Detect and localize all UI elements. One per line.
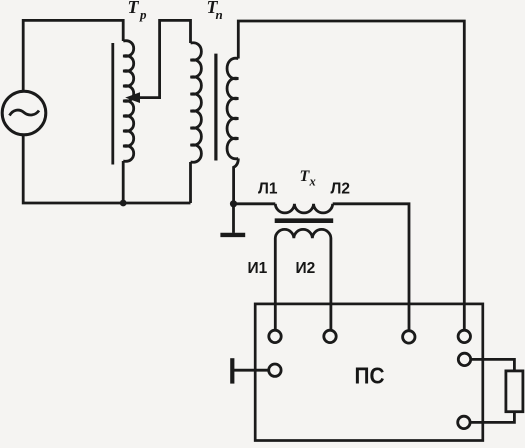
arrow head of tap (points left at Tr winding) xyxy=(125,92,140,103)
transformer T_x core xyxy=(275,218,334,223)
transformer T_x secondary winding (I1-I2) with legs to PS xyxy=(275,229,331,330)
resistor R xyxy=(506,371,523,412)
transformer T_p right winding xyxy=(227,58,238,159)
wire: terminal 6 to resistor top xyxy=(471,359,515,371)
svg-text:Т: Т xyxy=(128,0,140,17)
transformer T_p left winding xyxy=(191,43,202,163)
svg-text:Л2: Л2 xyxy=(331,181,351,198)
wire: L2 to PS terminal 3 xyxy=(333,204,409,331)
wire: Tr coil bottom feed xyxy=(122,161,125,203)
svg-text:р: р xyxy=(139,7,147,22)
box PS xyxy=(255,304,483,441)
transformer T_r core xyxy=(111,43,114,165)
wire: Tp right bottom down to junction xyxy=(234,159,239,204)
terminal 6 xyxy=(458,353,470,365)
terminal 7 xyxy=(458,416,470,428)
svg-text:Л1: Л1 xyxy=(258,181,278,198)
svg-text:х: х xyxy=(309,174,316,188)
ground xyxy=(232,204,235,233)
terminal 1 xyxy=(269,330,281,342)
wire: tap arm from top rail xyxy=(139,20,191,97)
svg-text:п: п xyxy=(216,7,223,22)
node: junction dot Tr/bottom rail xyxy=(120,200,127,207)
wire: AC top to Tr coil top xyxy=(23,20,123,91)
svg-text:И2: И2 xyxy=(296,260,316,277)
svg-text:ПС: ПС xyxy=(355,363,385,389)
wire: junction to Tx primary L1 xyxy=(234,202,276,205)
AC sine symbol xyxy=(10,110,40,115)
terminal 5 xyxy=(269,364,281,376)
terminal 3 xyxy=(403,331,415,343)
transformer T_r winding xyxy=(123,41,134,162)
wire: Tp left coil bottom feed xyxy=(189,162,192,203)
wire: Tp right top to far right drop into PS terminal 4 xyxy=(238,21,464,330)
wire: electrode to terminal 5 xyxy=(232,369,268,372)
transformer T_p core xyxy=(214,54,217,161)
svg-text:И1: И1 xyxy=(248,260,268,277)
terminal 2 xyxy=(324,330,336,342)
AC source G1 xyxy=(2,91,46,135)
node: junction dot at ground branch xyxy=(230,200,237,207)
wire: AC bottom to bottom rail to Tp primary bottom xyxy=(23,135,190,203)
transformer T_x primary winding (L1-L2) xyxy=(275,204,332,213)
wire: resistor bottom to terminal 7 xyxy=(470,412,514,423)
terminal 4 xyxy=(458,330,470,342)
electrode bar at left input xyxy=(230,358,234,383)
